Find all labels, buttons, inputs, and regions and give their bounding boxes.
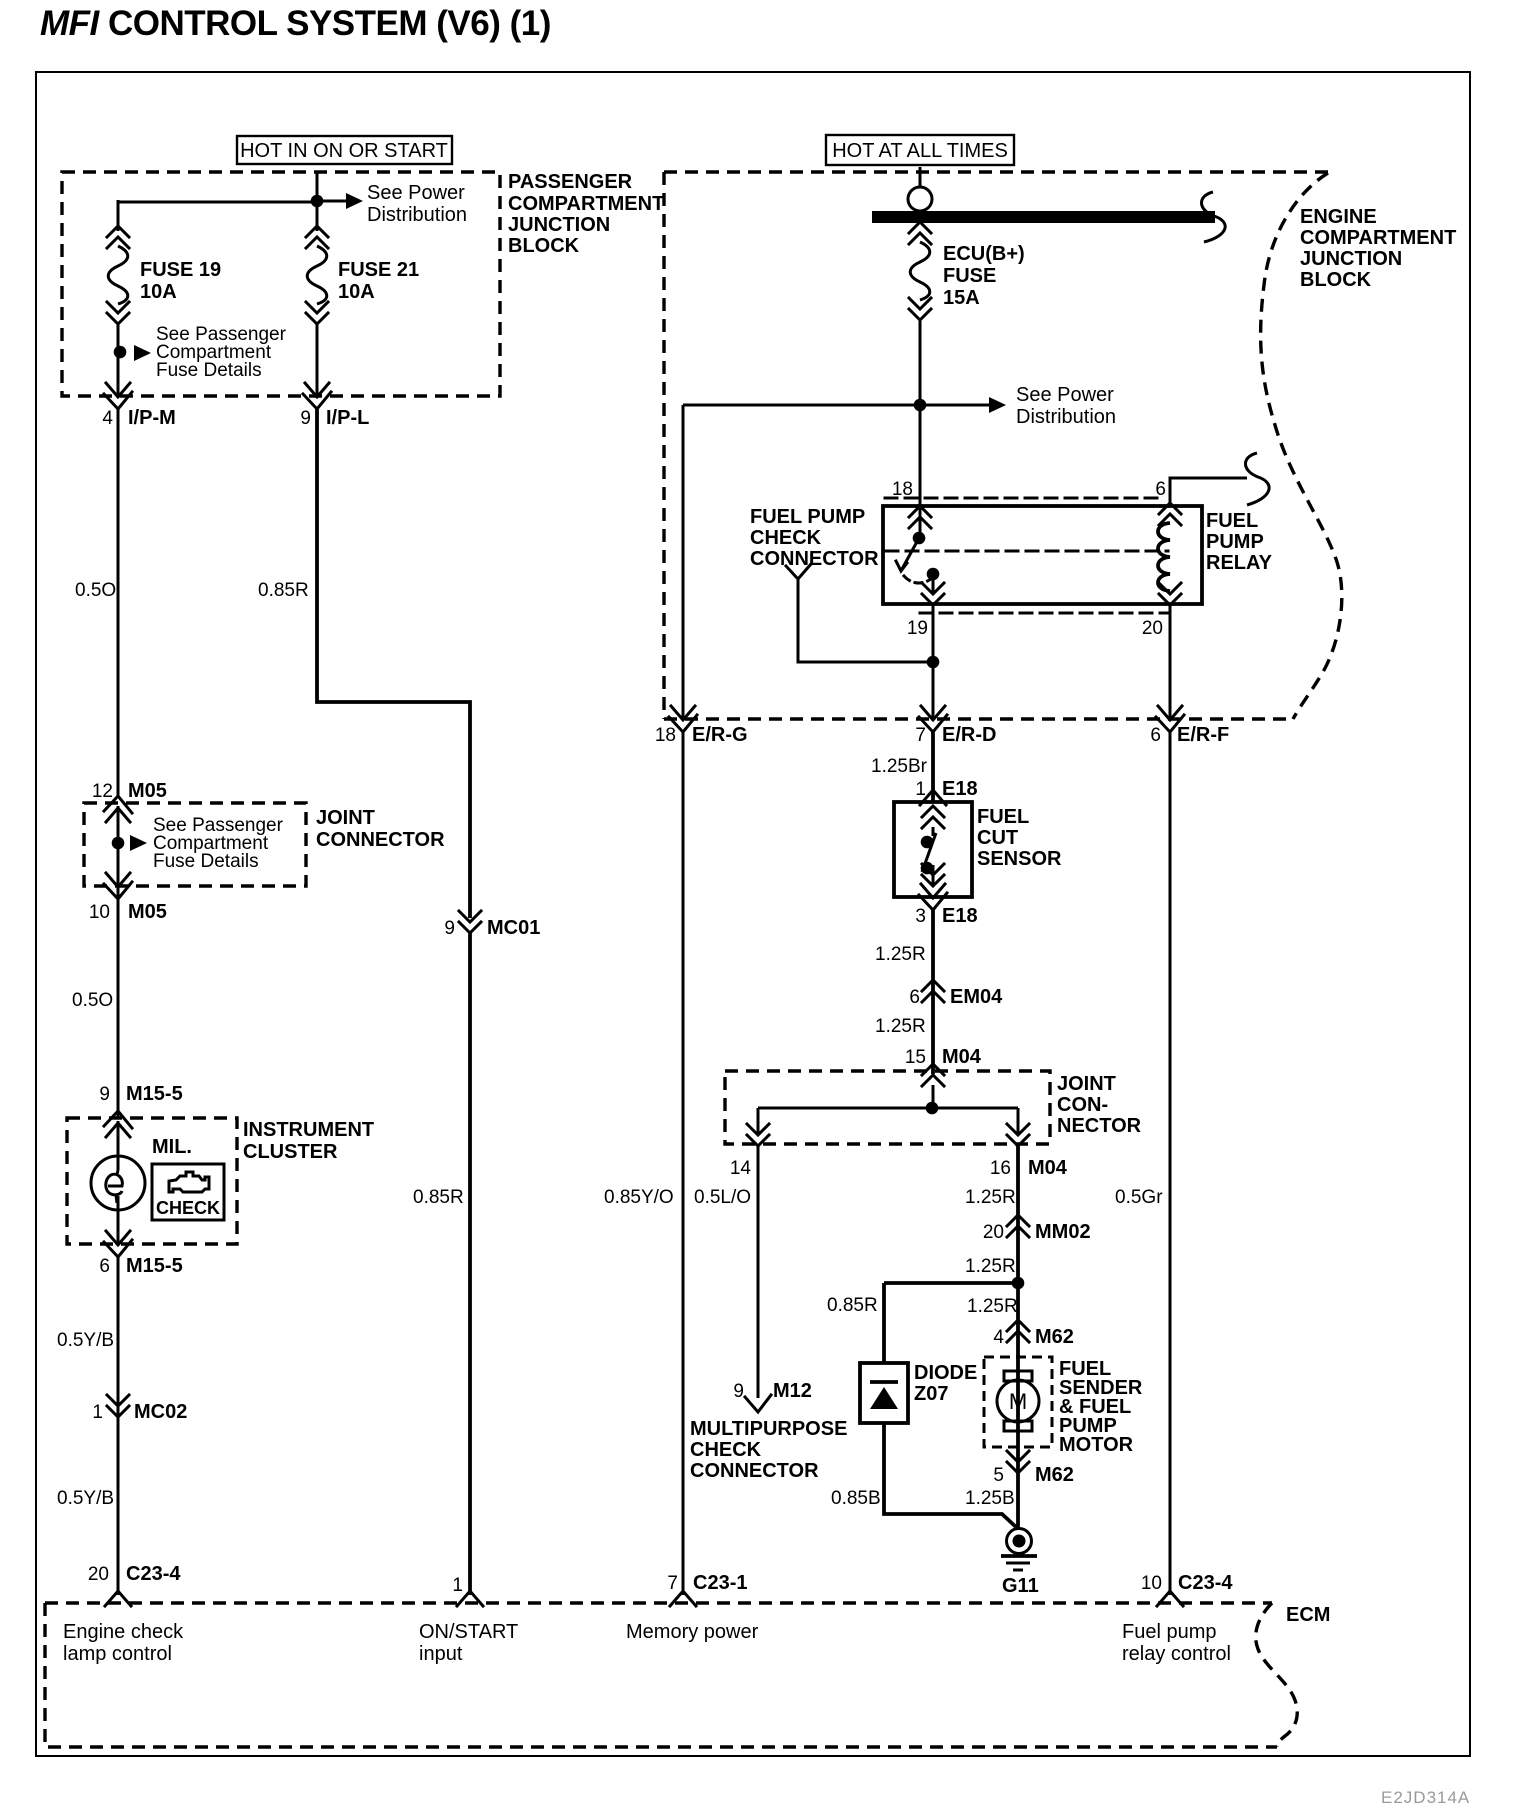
dashed pin rail above relay	[885, 497, 1160, 500]
node: power distribution junction	[914, 399, 927, 412]
svg-text:JUNCTION: JUNCTION	[1300, 248, 1402, 270]
svg-text:INSTRUMENT: INSTRUMENT	[243, 1119, 374, 1141]
svg-text:1.25R: 1.25R	[965, 1187, 1016, 1208]
svg-text:See Power: See Power	[367, 182, 465, 204]
svg-text:1: 1	[452, 1575, 463, 1596]
svg-text:E/R-F: E/R-F	[1177, 724, 1229, 746]
wire 0.5Y/B cluster to MC02	[117, 1257, 120, 1595]
svg-text:G11: G11	[1002, 1575, 1039, 1597]
svg-text:E/R-G: E/R-G	[692, 724, 748, 746]
arrow See Power Distribution (engine block)	[989, 397, 1006, 413]
svg-text:1.25R: 1.25R	[965, 1256, 1016, 1277]
svg-text:M04: M04	[1028, 1157, 1068, 1179]
engine block wavy right boundary	[1261, 173, 1342, 719]
svg-text:10: 10	[89, 902, 110, 923]
connector FUEL PUMP CHECK CONNECTOR	[750, 506, 879, 570]
svg-text:1: 1	[915, 779, 926, 800]
svg-text:5: 5	[993, 1465, 1004, 1486]
svg-text:input: input	[419, 1643, 463, 1665]
svg-text:4: 4	[993, 1327, 1004, 1348]
svg-text:CUT: CUT	[977, 827, 1018, 849]
relay switch: common pole	[919, 505, 922, 538]
svg-text:0.5Gr: 0.5Gr	[1115, 1187, 1163, 1208]
motor M	[997, 1380, 1039, 1422]
svg-text:7: 7	[915, 725, 926, 746]
svg-text:0.5O: 0.5O	[72, 990, 113, 1011]
fuse ECU(B+) FUSE 15A	[909, 222, 931, 320]
svg-text:See Power: See Power	[1016, 384, 1114, 406]
svg-text:RELAY: RELAY	[1206, 552, 1273, 574]
battery feed ring	[919, 167, 922, 187]
svg-text:16: 16	[990, 1158, 1011, 1179]
wire 1.25R E18 to EM04	[931, 910, 935, 1074]
label box HOT IN ON OR START	[237, 136, 452, 164]
svg-text:Distribution: Distribution	[1016, 406, 1116, 428]
pin 20 chevrons	[1159, 583, 1181, 605]
svg-text:EM04: EM04	[950, 986, 1003, 1008]
wire 0.5O: M05 to M15-5	[117, 899, 120, 1118]
pin 18 chevrons	[909, 506, 931, 528]
label box HOT AT ALL TIMES	[826, 135, 1014, 165]
svg-text:M62: M62	[1035, 1326, 1074, 1348]
svg-text:HOT AT ALL TIMES: HOT AT ALL TIMES	[832, 140, 1008, 162]
svg-text:0.85R: 0.85R	[258, 580, 309, 601]
svg-text:MM02: MM02	[1035, 1221, 1091, 1243]
svg-text:3: 3	[915, 906, 926, 927]
svg-text:CHECK: CHECK	[156, 1198, 220, 1218]
svg-text:9: 9	[733, 1381, 744, 1402]
joint connector box 2 (dashed)	[725, 1071, 1050, 1144]
svg-text:MFI CONTROL SYSTEM (V6) (1): MFI CONTROL SYSTEM (V6) (1)	[40, 4, 551, 43]
wire: branch left to E/R-G	[683, 405, 920, 719]
svg-text:4: 4	[102, 408, 113, 429]
wire inside joint connector	[117, 806, 120, 898]
connector 1 MC02	[107, 1395, 129, 1417]
svg-text:M15-5: M15-5	[126, 1255, 183, 1277]
svg-text:SENSOR: SENSOR	[977, 848, 1062, 870]
svg-text:MIL.: MIL.	[152, 1136, 192, 1158]
connector 18 E/R-G	[669, 706, 697, 732]
svg-text:14: 14	[730, 1158, 752, 1179]
connector 20 MM02	[1007, 1215, 1029, 1237]
svg-text:0.5L/O: 0.5L/O	[694, 1187, 751, 1208]
wire 0.85R: I/P-L down, jog right, down to MC01	[317, 409, 470, 918]
arrow see passenger fuse details (joint connector)	[130, 835, 147, 851]
svg-text:M04: M04	[942, 1046, 982, 1068]
svg-text:1.25R: 1.25R	[967, 1296, 1018, 1317]
svg-text:JOINT: JOINT	[1057, 1073, 1116, 1095]
svg-text:BLOCK: BLOCK	[508, 235, 580, 257]
svg-text:Engine check: Engine check	[63, 1621, 184, 1643]
svg-text:MC02: MC02	[134, 1401, 187, 1423]
relay middle dashed line	[886, 550, 1168, 553]
connector 6 EM04	[922, 980, 944, 1002]
svg-text:0.5O: 0.5O	[75, 580, 116, 601]
node: junction pin19/check connector	[927, 656, 940, 669]
wire inside joint connector 2	[932, 1085, 935, 1108]
connector 4 I/P-M	[104, 383, 132, 409]
svg-text:1.25R: 1.25R	[875, 944, 926, 965]
ECM wavy right boundary	[1256, 1603, 1298, 1747]
svg-text:Fuel pump: Fuel pump	[1122, 1621, 1217, 1643]
svg-text:COMPARTMENT: COMPARTMENT	[508, 193, 664, 215]
fuel cut sensor internals	[922, 806, 944, 828]
wire: relay pin 20 down	[1169, 605, 1172, 719]
svg-text:COMPARTMENT: COMPARTMENT	[1300, 227, 1456, 249]
svg-text:0.5Y/B: 0.5Y/B	[57, 1330, 114, 1351]
wire 0.5L/O to multipurpose check connector	[757, 1146, 760, 1398]
node: tap to fuse details note	[114, 346, 127, 359]
svg-text:1.25Br: 1.25Br	[871, 756, 928, 777]
svg-text:1.25B: 1.25B	[965, 1488, 1015, 1509]
wire 1.25Br E/R-D to fuel cut sensor	[931, 730, 935, 802]
svg-text:M05: M05	[128, 780, 167, 802]
svg-text:0.85R: 0.85R	[827, 1295, 878, 1316]
svg-text:CONNECTOR: CONNECTOR	[690, 1460, 819, 1482]
block name ENGINE COMPARTMENT JUNCTION BLOCK	[1300, 206, 1456, 291]
svg-text:M12: M12	[773, 1380, 812, 1402]
dashed pin rail below relay	[920, 612, 1168, 615]
wire: fuse to power distribution node	[919, 318, 922, 508]
wire: stub to See Power Distribution	[920, 404, 989, 407]
svg-text:Memory power: Memory power	[626, 1621, 759, 1643]
relay coil	[1158, 523, 1170, 591]
svg-text:DIODE: DIODE	[914, 1362, 977, 1384]
svg-text:15A: 15A	[943, 287, 980, 309]
svg-text:9: 9	[300, 408, 311, 429]
wire: pin 6 feed with curl	[1170, 478, 1247, 505]
connector 9 M12 (end socket)	[745, 1395, 771, 1412]
svg-text:ON/START: ON/START	[419, 1621, 518, 1643]
motor brushes	[1004, 1371, 1032, 1381]
indicator CHECK (engine icon)	[152, 1164, 224, 1220]
svg-text:0.85R: 0.85R	[413, 1187, 464, 1208]
svg-text:FUEL: FUEL	[1206, 510, 1258, 532]
svg-text:CONNECTOR: CONNECTOR	[316, 829, 445, 851]
svg-text:ENGINE: ENGINE	[1300, 206, 1377, 228]
svg-text:20: 20	[88, 1564, 109, 1585]
fuse FUSE 19 10A	[107, 226, 129, 324]
svg-text:C23-1: C23-1	[693, 1572, 747, 1594]
svg-text:6: 6	[1150, 725, 1161, 746]
wire 0.85R branch to diode	[884, 1283, 1018, 1363]
pin 6 chevrons	[1159, 503, 1181, 525]
svg-text:C23-4: C23-4	[1178, 1572, 1233, 1594]
svg-text:C23-4: C23-4	[126, 1563, 181, 1585]
svg-text:JOINT: JOINT	[316, 807, 375, 829]
svg-text:10: 10	[1141, 1573, 1162, 1594]
connector 9 I/P-L	[303, 383, 331, 409]
svg-text:0.85Y/O: 0.85Y/O	[604, 1187, 674, 1208]
fuel pump check connector fork	[786, 564, 811, 579]
svg-text:ECM: ECM	[1286, 1604, 1330, 1626]
svg-text:7: 7	[667, 1573, 678, 1594]
block name PASSENGER COMPARTMENT JUNCTION BLOCK	[508, 171, 664, 257]
svg-text:Z07: Z07	[914, 1383, 948, 1405]
svg-text:15: 15	[905, 1047, 926, 1068]
node: diode branch junction	[1012, 1277, 1025, 1290]
wire: joint connector bus	[758, 1108, 1018, 1135]
svg-text:CONNECTOR: CONNECTOR	[750, 548, 879, 570]
wire 0.5Gr E/R-F to ECM	[1169, 730, 1172, 1595]
svg-text:MC01: MC01	[487, 917, 540, 939]
wire: relay pin 19 down	[932, 605, 935, 719]
svg-text:E2JD314A: E2JD314A	[1381, 1788, 1470, 1807]
node: junction at I/P-L feed	[311, 195, 324, 208]
svg-text:1.25R: 1.25R	[875, 1016, 926, 1037]
node: tap in joint connector	[112, 837, 125, 850]
wire: throw to pin 19	[932, 574, 935, 592]
svg-text:MULTIPURPOSE: MULTIPURPOSE	[690, 1418, 847, 1440]
wire 1.25R M04 to MM02	[1016, 1146, 1020, 1529]
svg-text:Distribution: Distribution	[367, 204, 467, 226]
svg-text:20: 20	[1142, 618, 1163, 639]
wire 0.85Y/O E/R-G to ECM	[682, 730, 685, 1595]
svg-text:I/P-M: I/P-M	[128, 407, 176, 429]
wire: horizontal feed to fuse 19	[118, 200, 317, 231]
connector 10 M05	[104, 873, 132, 899]
svg-text:PUMP: PUMP	[1206, 531, 1264, 553]
svg-text:CHECK: CHECK	[750, 527, 822, 549]
svg-text:E/R-D: E/R-D	[942, 724, 996, 746]
svg-text:CLUSTER: CLUSTER	[243, 1141, 338, 1163]
svg-text:Fuse Details: Fuse Details	[153, 851, 259, 872]
svg-text:9: 9	[444, 918, 455, 939]
svg-text:0.85B: 0.85B	[831, 1488, 881, 1509]
svg-text:lamp control: lamp control	[63, 1643, 172, 1665]
svg-text:12: 12	[92, 781, 113, 802]
lamp filament	[106, 1170, 123, 1203]
svg-text:10A: 10A	[140, 281, 177, 303]
connector 9 MC01	[459, 911, 481, 933]
svg-text:PASSENGER: PASSENGER	[508, 171, 633, 193]
wire: check connector to pin19 net	[798, 578, 933, 662]
ECM box (dashed)	[45, 1601, 1272, 1604]
svg-text:FUSE: FUSE	[943, 265, 996, 287]
bus bar end curl	[1201, 192, 1225, 242]
arrow See Power Distribution	[346, 193, 363, 209]
diode Z07 box	[860, 1363, 908, 1423]
relay FUEL PUMP RELAY box	[883, 506, 1202, 604]
svg-text:E18: E18	[942, 905, 978, 927]
svg-text:MOTOR: MOTOR	[1059, 1434, 1134, 1456]
sensor FUEL CUT SENSOR box	[894, 802, 972, 897]
connector 14 (M04 left)	[747, 1124, 769, 1146]
svg-text:M: M	[1009, 1389, 1027, 1414]
passenger compartment junction block (dashed)	[62, 172, 500, 396]
svg-text:I/P-L: I/P-L	[326, 407, 369, 429]
wire 0.5O: I/P-M down to joint connector	[117, 409, 120, 797]
svg-text:0.5Y/B: 0.5Y/B	[57, 1488, 114, 1509]
svg-text:1: 1	[92, 1402, 103, 1423]
relay switch throw contact	[927, 568, 940, 581]
svg-text:relay control: relay control	[1122, 1643, 1231, 1665]
wire: fuse19 to I/P-M connector	[117, 322, 120, 398]
svg-text:JUNCTION: JUNCTION	[508, 214, 610, 236]
svg-text:19: 19	[907, 618, 928, 639]
wire: fuse21 to I/P-L connector	[316, 322, 319, 398]
svg-text:FUSE 19: FUSE 19	[140, 259, 221, 281]
svg-text:CHECK: CHECK	[690, 1439, 762, 1461]
relay switch arm	[902, 538, 919, 569]
connector 5 M62	[1007, 1451, 1029, 1473]
connector 6 E/R-F	[1156, 706, 1184, 732]
svg-text:HOT IN ON OR START: HOT IN ON OR START	[240, 140, 448, 162]
engine compartment junction block (dashed outline)	[664, 170, 1328, 173]
svg-text:18: 18	[655, 725, 676, 746]
svg-text:BLOCK: BLOCK	[1300, 269, 1372, 291]
svg-text:FUEL: FUEL	[977, 806, 1029, 828]
svg-text:M62: M62	[1035, 1464, 1074, 1486]
diode symbol	[870, 1387, 898, 1409]
svg-text:10A: 10A	[338, 281, 375, 303]
connector name MULTIPURPOSE CHECK CONNECTOR	[690, 1418, 847, 1482]
svg-text:E18: E18	[942, 778, 978, 800]
svg-text:NECTOR: NECTOR	[1057, 1115, 1142, 1137]
svg-text:20: 20	[983, 1222, 1004, 1243]
svg-text:M05: M05	[128, 901, 167, 923]
instrument cluster box (dashed)	[67, 1118, 237, 1244]
arrow see passenger fuse details	[134, 345, 151, 361]
connector 6 M15-5 (cluster exit)	[104, 1231, 132, 1257]
bus bar (hot at all times)	[872, 211, 1215, 223]
connector 3 E18	[919, 884, 947, 910]
connector 16 M04	[1007, 1124, 1029, 1146]
svg-text:ECU(B+): ECU(B+)	[943, 243, 1025, 265]
joint connector box (dashed)	[84, 803, 306, 886]
fuse FUSE 21 10A	[306, 226, 328, 324]
svg-text:M15-5: M15-5	[126, 1083, 183, 1105]
wire: feed down to junction in PCJB	[316, 172, 319, 202]
node: joint connector 2 junction	[926, 1102, 939, 1115]
motor box FUEL SENDER & FUEL PUMP MOTOR (dashed)	[984, 1357, 1052, 1447]
svg-text:6: 6	[99, 1256, 110, 1277]
wire: stub to See Power Distribution arrow	[317, 200, 347, 203]
svg-text:9: 9	[99, 1084, 110, 1105]
svg-text:Fuse Details: Fuse Details	[156, 360, 262, 381]
wire 0.85R MC01 to ECM	[468, 933, 472, 1595]
svg-text:FUSE 21: FUSE 21	[338, 259, 419, 281]
ground G11	[1007, 1529, 1032, 1554]
svg-text:FUEL PUMP: FUEL PUMP	[750, 506, 865, 528]
svg-text:CON-: CON-	[1057, 1094, 1108, 1116]
connector 4 M62	[1007, 1320, 1029, 1342]
svg-text:6: 6	[909, 987, 920, 1008]
wire 0.85B diode to ground	[884, 1423, 1016, 1527]
connector 7 E/R-D	[919, 706, 947, 732]
